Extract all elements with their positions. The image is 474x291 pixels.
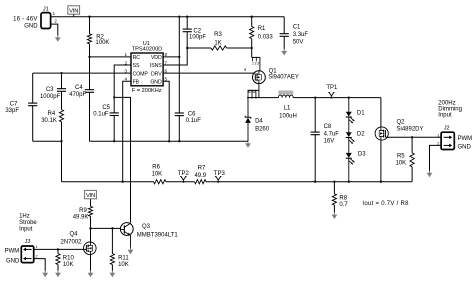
svg-text:VDD: VDD <box>151 55 162 61</box>
svg-text:TP3: TP3 <box>214 171 226 177</box>
svg-text:Iout = 0.7V / R8: Iout = 0.7V / R8 <box>362 201 409 207</box>
svg-text:3.3uF: 3.3uF <box>293 32 309 38</box>
node C2-rail junction <box>186 16 188 18</box>
wire VDD pin8 to VIN rail <box>163 17 179 57</box>
svg-text:1K: 1K <box>214 40 221 46</box>
svg-text:B260: B260 <box>255 127 270 133</box>
svg-text:4.7uF: 4.7uF <box>324 131 340 137</box>
node RC junction <box>88 56 90 58</box>
wire Q1 drain to switch node <box>258 83 260 97</box>
node ISNS junction <box>186 47 188 49</box>
svg-text:10K: 10K <box>63 262 74 268</box>
node SS branch junction <box>113 96 115 98</box>
resistor R1 <box>251 17 253 27</box>
svg-text:R7: R7 <box>198 166 206 172</box>
svg-text:D2: D2 <box>357 131 365 137</box>
ground (R11) <box>111 271 113 274</box>
wire DRV pin6 to Q1 gate <box>163 72 253 74</box>
svg-text:J3: J3 <box>25 239 31 245</box>
wire J3 pin1 to Q4 gate <box>34 248 84 250</box>
svg-text:49.9K: 49.9K <box>73 215 89 221</box>
svg-text:C6: C6 <box>188 112 196 118</box>
svg-text:F = 200KHz: F = 200KHz <box>132 88 162 94</box>
svg-text:Strobe: Strobe <box>19 220 37 226</box>
wire VIN rail (top) <box>51 16 285 18</box>
connector J2 <box>441 132 454 149</box>
capacitor C1 <box>283 17 285 34</box>
svg-text:2: 2 <box>125 60 128 65</box>
capacitor C4 <box>89 57 91 90</box>
svg-text:C2: C2 <box>193 28 201 34</box>
capacitor C2 <box>186 17 188 29</box>
node VDD-rail junction <box>178 16 180 18</box>
svg-text:R4: R4 <box>48 111 56 117</box>
svg-text:TP2: TP2 <box>178 171 190 177</box>
svg-text:C1: C1 <box>293 24 301 30</box>
svg-text:VIN: VIN <box>69 8 78 14</box>
svg-text:J1: J1 <box>43 6 49 12</box>
svg-text:3: 3 <box>125 68 128 73</box>
transistor Q4 2N7002 <box>90 228 92 242</box>
svg-text:33pF: 33pF <box>5 108 19 114</box>
svg-text:GND: GND <box>6 259 20 265</box>
svg-text:R8: R8 <box>339 195 347 201</box>
resistor R8 <box>333 181 335 183</box>
svg-text:2: 2 <box>36 254 38 258</box>
svg-text:C7: C7 <box>10 101 18 107</box>
wire FB pin4 down to feedback line <box>123 81 131 182</box>
node C7-R4 junction <box>60 140 62 142</box>
node C5-gnd junction <box>113 140 115 142</box>
ground (R8) <box>333 212 335 215</box>
wire ground rail <box>90 140 249 142</box>
svg-text:1: 1 <box>36 245 38 249</box>
svg-text:8765: 8765 <box>248 90 255 94</box>
resistor R10 <box>57 249 59 253</box>
svg-text:R3: R3 <box>214 32 222 38</box>
svg-text:1Hz: 1Hz <box>19 213 30 219</box>
ground (J3) <box>44 271 46 274</box>
resistor R11 <box>111 228 113 253</box>
ground (Q4) <box>90 271 92 274</box>
ground (R10) <box>57 271 59 274</box>
capacitor C6 <box>178 57 180 113</box>
svg-text:1: 1 <box>125 52 128 57</box>
net label VIN (top) <box>68 6 80 14</box>
svg-text:Input: Input <box>19 227 33 233</box>
capacitor C5 <box>110 112 119 114</box>
svg-text:GND: GND <box>24 23 38 29</box>
svg-text:R11: R11 <box>118 255 129 261</box>
node R9-Q4 junction <box>89 227 91 229</box>
svg-text:GND: GND <box>458 145 472 151</box>
node COMP-C3 junction <box>60 72 62 74</box>
svg-text:Q3: Q3 <box>142 224 151 230</box>
ground (J1) <box>57 35 59 38</box>
svg-text:C5: C5 <box>102 105 110 111</box>
node C6-gnd junction <box>178 140 180 142</box>
node VDD-C6 junction <box>178 56 180 58</box>
wire J2 pin2 to ground <box>430 145 442 171</box>
svg-text:16 - 46V: 16 - 46V <box>13 16 37 22</box>
svg-text:0.033: 0.033 <box>258 35 274 41</box>
svg-text:L1: L1 <box>284 106 291 112</box>
transistor Q3 MMBT3904LT1 <box>120 223 133 236</box>
node VIN-R2 junction <box>88 16 90 18</box>
test point TP1 <box>328 92 334 97</box>
wire J1 pin2 to ground <box>51 24 58 35</box>
wire GND pin5 to ground rail <box>163 81 169 141</box>
svg-text:DRV: DRV <box>151 71 162 77</box>
node gate-R5 junction <box>411 136 413 138</box>
wire SS pin2 to C5 <box>114 65 131 113</box>
node FB junction <box>122 181 124 183</box>
wire Q4 source to ground <box>90 255 92 272</box>
svg-text:D3: D3 <box>358 152 366 158</box>
svg-text:1: 1 <box>437 133 439 137</box>
Q1 bottom drain bar and stubs <box>248 89 259 91</box>
svg-text:FB: FB <box>133 79 140 85</box>
svg-text:16V: 16V <box>324 139 335 145</box>
svg-text:100pF: 100pF <box>189 35 206 41</box>
wire COMP pin3 to compensation network <box>33 72 131 74</box>
pin arrow 2 (J3) <box>25 258 32 260</box>
svg-text:GND: GND <box>150 79 162 85</box>
node pin5-gnd junction <box>168 140 170 142</box>
svg-text:1000pF: 1000pF <box>40 94 61 100</box>
LED D1 <box>348 96 350 98</box>
svg-text:RC: RC <box>133 55 141 61</box>
wire strobe node <box>91 227 121 229</box>
svg-text:50V: 50V <box>293 40 304 46</box>
svg-text:SS: SS <box>133 63 140 69</box>
node R1-rail junction <box>251 16 253 18</box>
resistor R7 <box>195 180 207 184</box>
svg-text:1 2 3: 1 2 3 <box>252 61 259 65</box>
svg-text:ISNS: ISNS <box>150 63 162 69</box>
ground (D4 / power ground rail) <box>247 141 249 144</box>
ground (C1) <box>283 49 285 52</box>
resistor R6 <box>154 180 167 184</box>
svg-text:COMP: COMP <box>133 71 149 77</box>
svg-text:49.9: 49.9 <box>194 173 206 179</box>
pin arrow 2 (J2) <box>444 144 451 146</box>
svg-text:C8: C8 <box>324 124 332 130</box>
capacitor C3 <box>61 73 63 89</box>
resistor R9 <box>90 202 92 206</box>
net label VIN (strobe) <box>85 190 97 198</box>
pin arrow 1 (J2) <box>444 136 451 138</box>
op-amp-circle Q1 body <box>253 71 266 84</box>
svg-text:10K: 10K <box>152 172 163 178</box>
LED D2 <box>348 117 350 132</box>
wire switch node bus <box>248 97 381 99</box>
svg-text:100K: 100K <box>95 40 109 46</box>
svg-text:Q2: Q2 <box>397 120 406 126</box>
resistor R2 <box>89 17 91 34</box>
pin arrow 1 (J3) <box>25 248 32 250</box>
node R11 junction <box>111 227 113 229</box>
wire Q3 emitter to ground <box>130 236 132 249</box>
wire RC pin1 to R2/C4 node <box>90 56 132 58</box>
connector J1 <box>41 13 51 29</box>
wire feedback/sense line <box>62 181 413 183</box>
connector J3 <box>21 246 33 263</box>
svg-text:TP1: TP1 <box>326 85 338 91</box>
svg-text:R5: R5 <box>397 153 405 159</box>
svg-text:C4: C4 <box>75 85 83 91</box>
capacitor C8 <box>314 96 316 98</box>
transistor Q1 Si9407AEY <box>252 56 261 58</box>
svg-text:Q1: Q1 <box>269 68 278 74</box>
resistor R5 <box>411 137 413 153</box>
svg-text:C3: C3 <box>46 87 54 93</box>
wire SS to Q3 collector <box>114 97 130 222</box>
svg-text:R1: R1 <box>258 26 266 32</box>
svg-text:Q4: Q4 <box>70 231 79 237</box>
svg-text:R9: R9 <box>79 208 87 214</box>
svg-text:4: 4 <box>125 77 128 82</box>
svg-text:2N7002: 2N7002 <box>61 239 83 245</box>
svg-text:0.7: 0.7 <box>339 202 348 208</box>
node R10 junction <box>57 248 59 250</box>
ground (J2) <box>429 171 431 174</box>
svg-text:R10: R10 <box>63 255 75 261</box>
test point TP2 <box>180 177 186 182</box>
svg-text:D1: D1 <box>357 111 365 117</box>
svg-text:470pF: 470pF <box>69 92 86 98</box>
resistor R3 <box>187 47 211 49</box>
capacitor C7 <box>32 73 34 103</box>
svg-text:D4: D4 <box>255 119 263 125</box>
svg-text:Si4892DY: Si4892DY <box>397 126 424 132</box>
wire C7 bottom to R4/FB column <box>33 140 62 142</box>
diode D4 B260 <box>247 98 249 118</box>
ground (Q3) <box>130 248 132 251</box>
resistor R4 <box>59 110 63 122</box>
svg-text:VIN: VIN <box>86 193 95 199</box>
wire Q2 gate to J2 <box>387 136 441 138</box>
svg-text:PWM: PWM <box>458 136 473 142</box>
svg-text:Si9407AEY: Si9407AEY <box>268 75 299 81</box>
svg-text:100uH: 100uH <box>279 114 297 120</box>
svg-text:10K: 10K <box>118 262 129 268</box>
svg-text:10K: 10K <box>395 161 406 167</box>
svg-text:0.1uF: 0.1uF <box>186 118 202 124</box>
inductor L1 <box>278 91 293 95</box>
svg-text:J2: J2 <box>444 126 450 132</box>
transistor Q2 Si4892DY <box>380 98 382 127</box>
wire Q2 source to sense line <box>380 140 382 182</box>
wire J3 pin2 to ground <box>34 259 46 271</box>
wire ISNS pin7 jog <box>163 48 187 65</box>
svg-text:Input: Input <box>438 113 452 119</box>
svg-text:R6: R6 <box>152 164 160 170</box>
svg-text:0.1uF: 0.1uF <box>93 112 109 118</box>
test point TP3 <box>215 177 221 182</box>
svg-text:TPS40200D: TPS40200D <box>132 46 162 52</box>
IC U1 TPS40200D body <box>131 53 163 86</box>
svg-text:PWM: PWM <box>5 248 20 254</box>
node R1-R3 junction <box>251 47 253 49</box>
svg-text:MMBT3904LT1: MMBT3904LT1 <box>137 233 179 239</box>
LED D3 <box>348 138 350 153</box>
svg-text:30.1K: 30.1K <box>41 118 57 124</box>
